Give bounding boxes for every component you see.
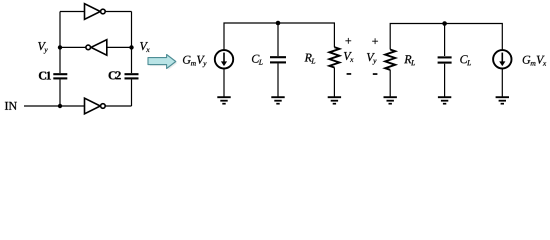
node Vy junction dot: [58, 45, 62, 49]
current source I2 (GmVx): [493, 50, 511, 68]
label CL1: [252, 55, 263, 65]
node dot rail1/CL1: [276, 21, 281, 26]
inverter U2 (middle, pointing left): [86, 40, 107, 56]
label C1: [39, 72, 51, 80]
ground G5: [438, 97, 451, 104]
label IN: [5, 102, 17, 110]
block arrow (transform symbol): [148, 55, 176, 69]
wire bottom row (IN): [24, 105, 132, 107]
wire RL1 bottom: [333, 68, 335, 98]
label Vx output: [344, 52, 354, 62]
wire right vertical rail (node Vx): [131, 12, 133, 107]
wire RL2 bottom: [389, 70, 391, 97]
label plus (Vy output): [372, 38, 378, 44]
wire CL2 top: [444, 24, 446, 57]
ground G4: [384, 97, 397, 104]
capacitor CL2: [438, 57, 452, 62]
ground G2: [271, 97, 284, 104]
resistor RL1: [329, 47, 339, 67]
label Vy output: [367, 53, 377, 65]
wire I2 bottom: [501, 68, 503, 97]
block arrow shadow: [150, 56, 178, 70]
wire top rail 1: [224, 23, 334, 50]
current source I1 (GmVy): [215, 50, 233, 68]
capacitor C2: [125, 74, 139, 78]
label RL1: [305, 54, 316, 64]
ground G3: [328, 97, 341, 104]
inverter U1 (top, pointing right): [85, 4, 106, 20]
wire I1 bottom: [223, 68, 225, 97]
node Vx junction dot: [129, 45, 133, 49]
label GmVx: [523, 56, 547, 66]
node IN junction dot: [58, 104, 62, 108]
label Vy: [38, 42, 48, 54]
label minus (Vy output): [373, 73, 378, 75]
label GmVy: [183, 56, 207, 67]
label CL2: [460, 55, 471, 65]
wire left vertical rail (node Vy): [59, 12, 61, 107]
node dot rail2/CL2: [442, 21, 447, 26]
ground G6: [496, 97, 509, 104]
label plus (Vx output): [346, 38, 352, 44]
label minus (Vx output): [347, 73, 352, 75]
resistor RL2: [385, 50, 395, 70]
wire middle row: [60, 46, 132, 48]
wire CL1 bottom: [277, 64, 279, 98]
wire CL1 top: [277, 23, 279, 56]
ground G1: [217, 97, 230, 104]
label RL2: [404, 55, 415, 65]
label Vx: [140, 42, 150, 52]
capacitor C1: [53, 74, 67, 78]
label C2: [109, 71, 121, 79]
wire top row: [60, 11, 132, 13]
wire CL2 bottom: [444, 64, 446, 97]
wire top rail 2: [390, 24, 502, 51]
inverter U3 (bottom, pointing right): [85, 98, 106, 114]
capacitor CL1: [270, 57, 286, 62]
